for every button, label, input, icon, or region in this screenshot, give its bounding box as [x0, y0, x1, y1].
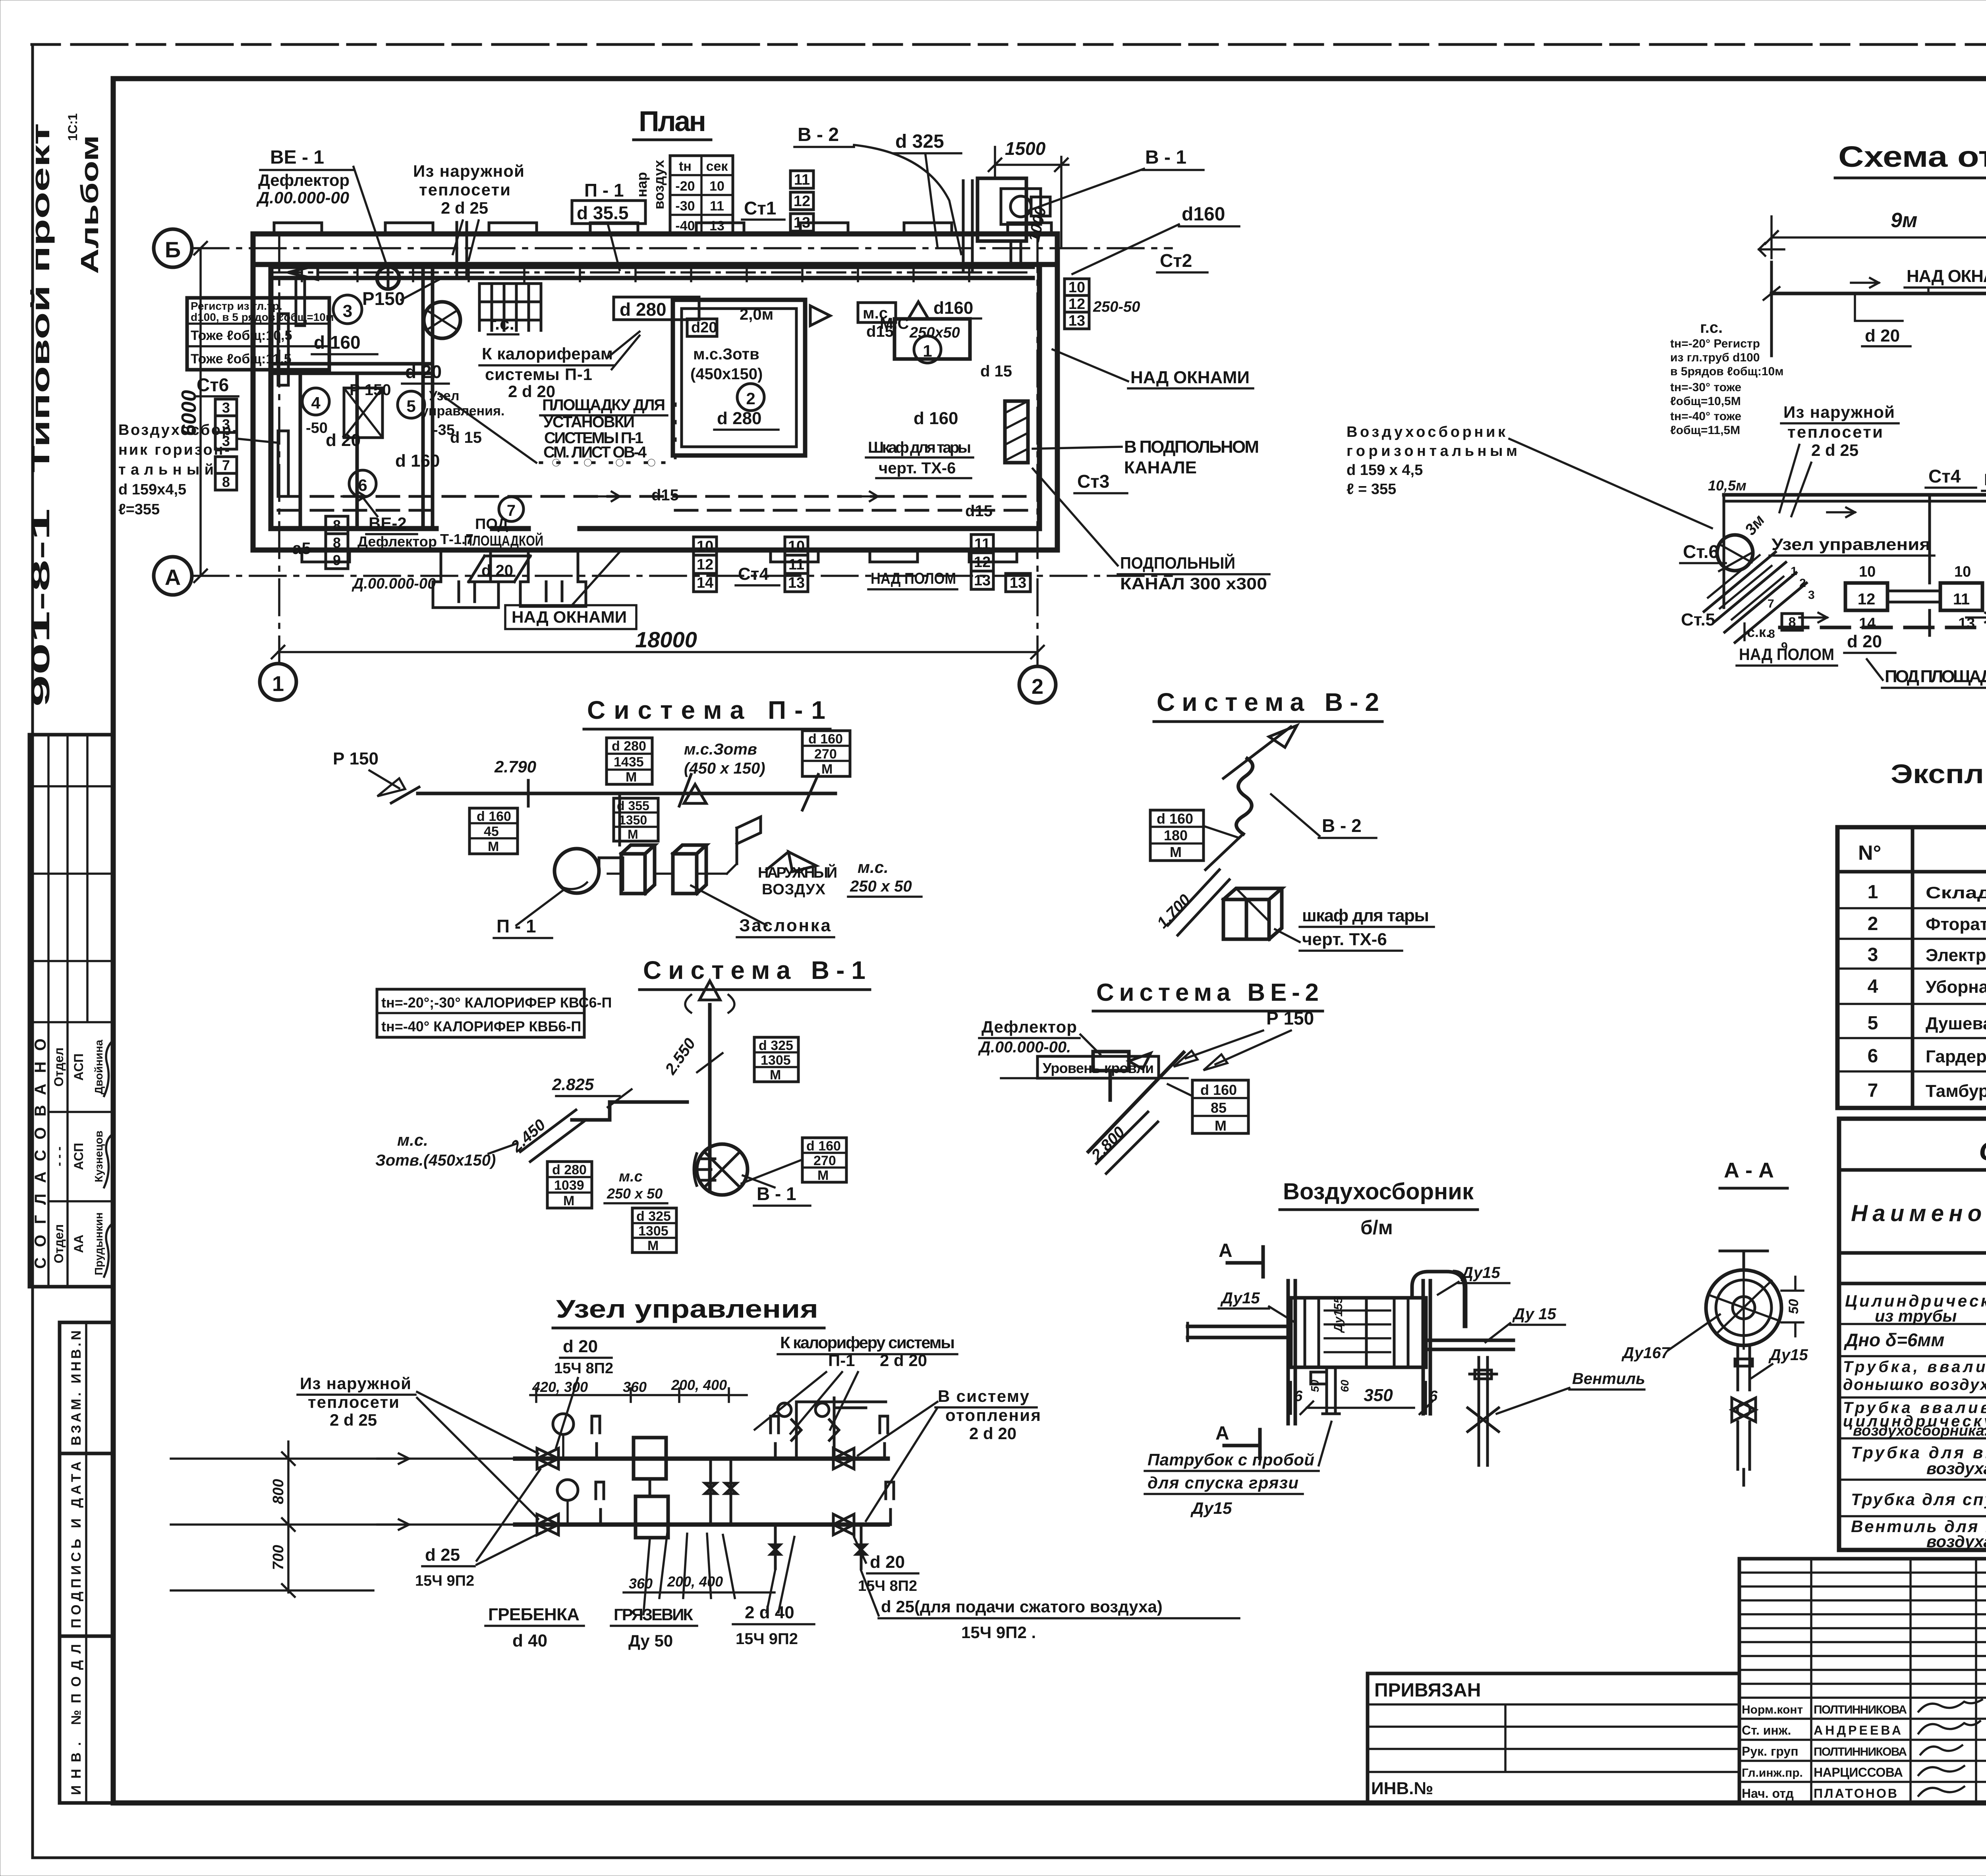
svg-text:АСП: АСП	[71, 1054, 86, 1081]
svg-text:d15: d15	[965, 502, 993, 520]
svg-text:14: 14	[1859, 615, 1876, 632]
svg-text:ГРЕБЕНКА: ГРЕБЕНКА	[488, 1605, 580, 1624]
svg-text:2.550: 2.550	[662, 1035, 699, 1078]
svg-text:901-8-1: 901-8-1	[26, 508, 55, 707]
svg-text:Из наружной: Из наружной	[1783, 403, 1895, 421]
svg-text:Ст. инж.: Ст. инж.	[1742, 1723, 1791, 1737]
hatched wall shaft	[1005, 401, 1028, 463]
svg-text:Дефлектор: Дефлектор	[258, 171, 350, 189]
svg-text:Дефлектор: Дефлектор	[357, 533, 437, 550]
svg-text:(450 х 150): (450 х 150)	[684, 760, 765, 777]
svg-text:черт. ТХ-6: черт. ТХ-6	[879, 459, 956, 477]
svg-text:Узел управления: Узел управления	[556, 1295, 818, 1323]
svg-text:2: 2	[746, 389, 755, 408]
circled 6	[349, 470, 376, 497]
svg-text:Трубка, вваливаемая в: Трубка, вваливаемая в	[1843, 1358, 1986, 1376]
svg-text:Система П-1: Система П-1	[587, 696, 825, 724]
svg-text:Тоже ℓобщ:11,5: Тоже ℓобщ:11,5	[191, 351, 292, 367]
specification table	[1839, 1119, 1986, 1551]
central room	[673, 300, 830, 455]
system V-2 diagram	[1150, 726, 1434, 951]
svg-text:d 160: d 160	[395, 451, 440, 471]
svg-text:Ст4: Ст4	[1928, 466, 1961, 486]
fan V-1 circle	[697, 1144, 748, 1195]
svg-text:3: 3	[222, 433, 230, 449]
svg-text:Отдел: Отдел	[52, 1224, 66, 1264]
svg-text:Кузнецов: Кузнецов	[93, 1131, 105, 1182]
svg-text:-50: -50	[306, 420, 328, 436]
circled 7 and pod ploschadkoy	[499, 497, 524, 521]
svg-text:d 280: d 280	[620, 299, 667, 320]
top elbow pipe	[1412, 1272, 1466, 1326]
svg-text:ПОД ПЛОЩАДКОЙ: ПОД ПЛОЩАДКОЙ	[1885, 666, 1986, 686]
zaslonka slab	[673, 845, 706, 894]
svg-text:12: 12	[1068, 296, 1085, 313]
svg-text:tн: tн	[679, 159, 692, 174]
svg-text:d160: d160	[933, 298, 973, 318]
svg-text:м.с.Зотв: м.с.Зотв	[693, 345, 759, 363]
svg-text:с.к.: с.к.	[1747, 624, 1770, 640]
svg-text:1: 1	[923, 342, 932, 360]
svg-text:d 20: d 20	[481, 562, 513, 579]
svg-text:ПОД: ПОД	[475, 516, 508, 533]
svg-text:Ду 15: Ду 15	[1512, 1305, 1556, 1323]
svg-text:10: 10	[697, 538, 713, 555]
VE-1 deflector circle on wall	[369, 267, 407, 289]
svg-text:Экспликация помещений: Экспликация помещений	[1891, 759, 1986, 789]
svg-text:-20: -20	[675, 179, 695, 194]
svg-text:Двойнина: Двойнина	[93, 1040, 105, 1094]
svg-text:ПОЛТИННИКОВА: ПОЛТИННИКОВА	[1814, 1745, 1907, 1758]
labels top duct area	[614, 297, 699, 320]
svg-text:из трубы: из трубы	[1875, 1307, 1957, 1325]
svg-text:Р 150: Р 150	[333, 749, 379, 768]
svg-text:d 40: d 40	[512, 1631, 547, 1650]
svg-text:200, 400: 200, 400	[667, 1573, 723, 1590]
P-1 intake circle	[424, 302, 460, 338]
svg-text:М: М	[488, 839, 499, 854]
svg-text:М: М	[647, 1238, 659, 1253]
bottom drain pipe	[1323, 1367, 1339, 1414]
svg-text:13: 13	[974, 572, 991, 589]
svg-text:13: 13	[788, 575, 805, 591]
svg-text:Воздухосбор-: Воздухосбор-	[118, 422, 238, 438]
stack boxes 11 12 13	[971, 535, 993, 589]
svg-text:План: План	[639, 106, 706, 137]
svg-text:Схема отопления: Схема отопления	[1838, 140, 1986, 173]
sidebar strip ИНВ № ПОДЛ	[60, 1636, 113, 1803]
svg-text:d 15: d 15	[450, 429, 482, 446]
svg-text:d 280: d 280	[717, 409, 762, 428]
d20 drop labels upper	[1855, 293, 1903, 321]
stack boxes 3 3 3	[215, 399, 237, 449]
svg-text:Спецификация: Спецификация	[1979, 1136, 1986, 1166]
svg-text:б/м: б/м	[1360, 1216, 1393, 1239]
svg-text:А - А: А - А	[1724, 1158, 1774, 1182]
axis B dash-dot line	[193, 247, 1172, 249]
svg-text:d20: d20	[691, 319, 717, 336]
left valves	[537, 1448, 558, 1469]
privyazan table	[1368, 1673, 1739, 1803]
svg-text:системы П-1: системы П-1	[485, 365, 592, 384]
svg-text:tн=-20°;-30° КАЛОРИФЕР КВС6-П: tн=-20°;-30° КАЛОРИФЕР КВС6-П	[381, 994, 612, 1011]
svg-text:Типовой проект: Типовой проект	[26, 123, 55, 473]
svg-text:270: 270	[813, 1153, 836, 1168]
valve ventil	[1468, 1357, 1499, 1465]
svg-text:6: 6	[1294, 1388, 1303, 1405]
svg-text:d15: d15	[651, 486, 679, 504]
svg-text:d 20: d 20	[326, 430, 361, 450]
svg-text:1С:1: 1С:1	[66, 113, 80, 141]
svg-text:Ст4: Ст4	[738, 564, 769, 584]
small drain valves lower	[771, 1525, 780, 1569]
svg-text:Ст6: Ст6	[197, 374, 229, 395]
svg-text:2: 2	[1799, 577, 1806, 590]
svg-text:15Ч 9П2: 15Ч 9П2	[736, 1630, 798, 1648]
svg-text:3м: 3м	[1741, 511, 1768, 538]
svg-text:Альбом: Альбом	[76, 135, 104, 274]
svg-text:13: 13	[709, 218, 724, 234]
stack boxes 10 12 13 right	[1064, 279, 1089, 329]
grebenka slanted radiators left	[1704, 552, 1806, 643]
supply air duct along top	[274, 264, 1033, 281]
svg-text:Из наружной: Из наружной	[413, 162, 524, 180]
manometers	[553, 1414, 574, 1434]
svg-text:11: 11	[710, 199, 724, 214]
svg-text:7: 7	[1768, 597, 1774, 610]
svg-text:ПРИВЯЗАН: ПРИВЯЗАН	[1374, 1680, 1481, 1701]
svg-text:Ду155: Ду155	[1332, 1296, 1345, 1333]
svg-text:4: 4	[1868, 976, 1878, 997]
svg-text:420, 300: 420, 300	[532, 1379, 588, 1395]
window marks top	[274, 223, 1051, 234]
svg-text:d 25: d 25	[425, 1545, 460, 1565]
svg-text:А: А	[165, 565, 181, 590]
svg-text:d 325: d 325	[895, 131, 944, 152]
svg-text:2 d 40: 2 d 40	[745, 1603, 794, 1622]
svg-text:м.с.Зотв: м.с.Зотв	[684, 741, 757, 758]
svg-text:В - 2: В - 2	[798, 124, 839, 145]
svg-text:tн=-30° тоже: tн=-30° тоже	[1670, 381, 1741, 394]
entrance porch right	[520, 550, 586, 606]
svg-text:d 35.5: d 35.5	[577, 203, 628, 223]
svg-text:tн=-20° Регистр: tн=-20° Регистр	[1670, 337, 1760, 350]
fan P-1	[554, 849, 599, 893]
svg-text:6: 6	[1429, 1388, 1438, 1405]
svg-text:НАД ПОЛОМ: НАД ПОЛОМ	[871, 570, 956, 587]
svg-text:шкаф для тары: шкаф для тары	[1302, 906, 1429, 925]
svg-text:45: 45	[484, 824, 499, 839]
shkaf 3d box	[1223, 888, 1282, 939]
middle pipe nad oknami row	[1724, 493, 1986, 497]
pipe down	[1738, 1345, 1750, 1390]
svg-text:М: М	[770, 1067, 781, 1083]
thermometers	[592, 1416, 604, 1525]
internal partitions left rooms	[271, 264, 433, 529]
svg-text:Система В-1: Система В-1	[643, 956, 865, 984]
axis 1 line and circle	[278, 236, 280, 664]
svg-text:d 20: d 20	[1847, 632, 1882, 651]
svg-text:Электрощитовая: Электрощитовая	[1926, 946, 1986, 965]
return pipe lower	[515, 1523, 888, 1527]
svg-text:d 325: d 325	[636, 1209, 671, 1224]
svg-text:воздуха: воздуха	[1926, 1532, 1986, 1551]
dim 1500	[989, 147, 1068, 246]
svg-text:УСТАНОВКИ: УСТАНОВКИ	[543, 413, 635, 431]
svg-text:Ст.6: Ст.6	[1683, 541, 1719, 562]
branch pipes up to kalorifer	[796, 1398, 886, 1459]
dimension 6000	[194, 242, 207, 582]
svg-text:АНДРЕЕВА: АНДРЕЕВА	[1814, 1723, 1901, 1737]
vozduhosbornik drawing	[1145, 1240, 1645, 1517]
svg-text:360: 360	[629, 1575, 653, 1592]
svg-text:10: 10	[1954, 564, 1971, 580]
svg-text:11: 11	[788, 556, 804, 573]
svg-text:Из наружной: Из наружной	[300, 1374, 411, 1393]
svg-text:2: 2	[1868, 913, 1878, 934]
svg-text:НАД ОКНАМИ: НАД ОКНАМИ	[1907, 266, 1986, 286]
svg-text:НАД ОКНАМИ: НАД ОКНАМИ	[1130, 368, 1250, 387]
svg-text:теплосети: теплосети	[1787, 423, 1883, 441]
svg-text:Р150: Р150	[362, 288, 405, 309]
svg-text:6: 6	[1868, 1046, 1878, 1067]
svg-text:НАРУЖНЫЙ: НАРУЖНЫЙ	[758, 863, 837, 881]
svg-text:воздухосборника.: воздухосборника.	[1853, 1422, 1986, 1439]
svg-text:ИНВ. №ПОДЛ: ИНВ. №ПОДЛ	[69, 1644, 84, 1795]
svg-text:85: 85	[1211, 1100, 1227, 1116]
sidebar strip ПОДПИСЬ И ДАТА	[60, 1453, 113, 1636]
svg-text:Д.00.000-00: Д.00.000-00	[256, 188, 349, 207]
svg-text:М: М	[626, 770, 637, 785]
svg-text:15Ч 8П2: 15Ч 8П2	[554, 1360, 613, 1377]
svg-text:d 15: d 15	[980, 363, 1012, 380]
dashed floor channel pipes	[278, 495, 1033, 498]
svg-text:d 20: d 20	[563, 1337, 598, 1356]
svg-text:Узел управления: Узел управления	[1772, 535, 1930, 554]
svg-text:отопления: отопления	[945, 1406, 1041, 1424]
svg-text:350: 350	[1364, 1386, 1393, 1405]
valve	[1732, 1398, 1756, 1422]
svg-text:КАНАЛЕ: КАНАЛЕ	[1124, 458, 1197, 477]
outer sheet border top (dashed)	[32, 43, 1986, 46]
svg-text:К калориферам: К калориферам	[482, 344, 613, 363]
tn sek table	[670, 156, 733, 234]
svg-text:черт. ТХ-6: черт. ТХ-6	[1302, 930, 1387, 949]
svg-text:ПОДПИСЬ И ДАТА: ПОДПИСЬ И ДАТА	[69, 1461, 84, 1628]
svg-text:Д.00.000-00: Д.00.000-00	[352, 575, 436, 592]
svg-text:Дно δ=6мм: Дно δ=6мм	[1843, 1330, 1944, 1350]
svg-text:НАРЦИССОВА: НАРЦИССОВА	[1814, 1765, 1903, 1779]
signature table rows	[1739, 1559, 1986, 1803]
svg-text:ℓобщ=11,5М: ℓобщ=11,5М	[1670, 424, 1740, 437]
svg-text:10,5м: 10,5м	[1708, 477, 1746, 494]
svg-text:8: 8	[222, 474, 230, 490]
gryazevik boxes	[634, 1438, 666, 1479]
vertical pipe pair from teploset	[457, 222, 467, 278]
heater grid K kaloriferam	[479, 284, 541, 330]
svg-text:Отдел: Отдел	[52, 1048, 66, 1087]
svg-text:Трубка для спуска грязи: Трубка для спуска грязи	[1851, 1490, 1986, 1509]
svg-text:d 20: d 20	[1865, 326, 1900, 345]
svg-text:А: А	[1215, 1423, 1229, 1444]
svg-text:1435: 1435	[614, 755, 644, 770]
svg-text:ГРЯЗЕВИК: ГРЯЗЕВИК	[614, 1605, 693, 1624]
svg-text:N°: N°	[1858, 841, 1881, 865]
axis 2 line and circle	[1036, 236, 1039, 666]
svg-text:d 160: d 160	[1157, 811, 1193, 827]
naruzhny vozduh arrow	[767, 852, 816, 872]
svg-text:Т-1.7: Т-1.7	[440, 531, 473, 547]
svg-text:8: 8	[333, 535, 341, 551]
svg-text:горизонтальным: горизонтальным	[1347, 443, 1517, 459]
svg-text:700: 700	[270, 1545, 287, 1570]
svg-text:Тамбур: Тамбур	[1926, 1081, 1986, 1101]
svg-text:d100, в 5 рядов ℓобщ=10м: d100, в 5 рядов ℓобщ=10м	[191, 311, 334, 323]
svg-text:10: 10	[1068, 279, 1085, 296]
svg-text:9м: 9м	[1891, 209, 1917, 232]
dimension 18000	[272, 646, 1044, 658]
svg-text:d 160: d 160	[914, 409, 958, 428]
svg-text:d 20: d 20	[870, 1552, 905, 1572]
platform dotted outline	[540, 401, 675, 463]
svg-text:1305: 1305	[761, 1053, 791, 1068]
svg-text:Тоже ℓобщ:10,5: Тоже ℓобщ:10,5	[191, 328, 292, 343]
svg-text:сек: сек	[706, 159, 728, 174]
svg-text:Воздухосборник: Воздухосборник	[1283, 1179, 1474, 1204]
svg-text:Душевая: Душевая	[1926, 1014, 1986, 1033]
stack boxes 10 12 14	[694, 537, 717, 592]
svg-text:Р 150: Р 150	[350, 381, 391, 399]
section A-A drawing	[1621, 1251, 1808, 1485]
svg-text:П - 1: П - 1	[584, 180, 624, 201]
shkaf dlya tary room	[866, 319, 973, 478]
svg-text:3: 3	[1868, 944, 1878, 965]
svg-text:12: 12	[974, 554, 991, 571]
circled 5	[398, 391, 425, 418]
svg-text:7: 7	[1868, 1080, 1878, 1101]
svg-text:ℓ=355: ℓ=355	[118, 501, 160, 518]
svg-text:1: 1	[272, 672, 284, 696]
svg-text:Уборная: Уборная	[1926, 977, 1986, 997]
svg-text:250-50: 250-50	[1093, 299, 1140, 315]
svg-text:2 d 25: 2 d 25	[441, 199, 488, 217]
svg-text:ПЛОЩАДКУ ДЛЯ: ПЛОЩАДКУ ДЛЯ	[542, 396, 665, 414]
svg-text:14: 14	[697, 575, 713, 591]
svg-text:4: 4	[311, 394, 321, 412]
uzel upravleniya diagram	[171, 1333, 1239, 1650]
svg-text:1305: 1305	[638, 1224, 668, 1239]
svg-text:ВЕ-2: ВЕ-2	[369, 514, 407, 533]
svg-text:Наименование: Наименование	[1851, 1200, 1986, 1226]
svg-text:2 d 20: 2 d 20	[969, 1424, 1016, 1443]
svg-text:Ду15: Ду15	[1461, 1264, 1500, 1282]
svg-text:5: 5	[1868, 1013, 1878, 1034]
svg-text:Воздухосборник: Воздухосборник	[1347, 424, 1506, 440]
svg-text:360: 360	[623, 1379, 647, 1395]
circled 4	[302, 388, 329, 415]
svg-text:2,0м: 2,0м	[740, 306, 773, 323]
svg-text:180: 180	[1164, 827, 1188, 843]
svg-text:2 d 25: 2 d 25	[1811, 441, 1858, 459]
lower radiators pair	[1845, 556, 1982, 635]
svg-text:М: М	[817, 1168, 829, 1183]
svg-text:d 280: d 280	[612, 739, 646, 754]
axis B circle	[154, 229, 192, 267]
svg-text:М: М	[1215, 1117, 1227, 1134]
svg-text:tн=-40° тоже: tн=-40° тоже	[1670, 410, 1741, 423]
equipment slim rects	[278, 314, 288, 385]
svg-text:м.с.: м.с.	[858, 858, 889, 876]
svg-text:Патрубок с пробой: Патрубок с пробой	[1148, 1450, 1314, 1469]
svg-text:60: 60	[1339, 1380, 1351, 1392]
system VE-2 diagram	[978, 1008, 1314, 1173]
svg-text:ВЗАМ. ИНВ.N: ВЗАМ. ИНВ.N	[69, 1330, 84, 1446]
svg-text:Прудынкин: Прудынкин	[93, 1212, 105, 1275]
svg-text:ВОЗДУХ: ВОЗДУХ	[762, 881, 826, 898]
svg-text:d 280: d 280	[552, 1162, 587, 1177]
left inlet pipe	[1188, 1326, 1291, 1338]
svg-text:-30: -30	[675, 199, 695, 214]
svg-text:d 159х4,5: d 159х4,5	[118, 481, 186, 498]
svg-text:а5: а5	[292, 539, 311, 558]
svg-text:Ст1: Ст1	[744, 198, 776, 218]
svg-text:d 325: d 325	[759, 1038, 793, 1053]
right outlet pipe	[1426, 1340, 1513, 1349]
svg-text:Ст.5: Ст.5	[1681, 610, 1715, 629]
svg-text:г.с.: г.с.	[1700, 319, 1723, 336]
svg-text:Дефлектор: Дефлектор	[981, 1017, 1077, 1036]
svg-text:СМ. ЛИСТ ОВ-4: СМ. ЛИСТ ОВ-4	[543, 444, 647, 461]
left registr box	[187, 298, 334, 370]
svg-text:d 160: d 160	[477, 809, 511, 824]
svg-text:НАД ПОЛОМ: НАД ПОЛОМ	[1739, 645, 1834, 664]
svg-text:50: 50	[1309, 1380, 1321, 1392]
svg-text:13: 13	[1010, 575, 1026, 591]
svg-text:Нач. отд: Нач. отд	[1742, 1786, 1794, 1801]
svg-text:АА: АА	[71, 1235, 86, 1253]
svg-text:ПЛОЩАДКОЙ: ПЛОЩАДКОЙ	[464, 532, 543, 549]
svg-text:АСП: АСП	[71, 1143, 86, 1170]
room legend table	[1837, 827, 1986, 1108]
uzel upravleniya circle	[1717, 535, 1753, 571]
svg-text:НАД ОКНАМИ: НАД ОКНАМИ	[1984, 470, 1986, 489]
svg-text:В систему: В систему	[938, 1387, 1030, 1405]
svg-text:10: 10	[788, 538, 805, 555]
svg-text:50: 50	[1786, 1299, 1801, 1314]
svg-text:М: М	[1170, 844, 1182, 860]
svg-text:Ду 50: Ду 50	[628, 1631, 673, 1650]
svg-text:250 х 50: 250 х 50	[607, 1185, 663, 1202]
svg-text:13: 13	[794, 214, 810, 231]
svg-text:Ст2: Ст2	[1160, 250, 1192, 271]
svg-text:13: 13	[1068, 313, 1085, 329]
svg-text:8: 8	[333, 517, 341, 533]
svg-text:Система ВЕ-2: Система ВЕ-2	[1096, 979, 1319, 1006]
svg-text:тальный: тальный	[118, 461, 214, 478]
svg-text:КАНАЛ 300 х300: КАНАЛ 300 х300	[1120, 574, 1267, 593]
bypass vertical pipes with valves	[711, 1459, 731, 1525]
svg-text:Шкаф для тары: Шкаф для тары	[868, 439, 971, 456]
svg-text:2: 2	[1032, 675, 1043, 699]
approval stamp table СОГЛАСОВАНО	[29, 735, 113, 1287]
left gs riser	[1770, 262, 1773, 356]
svg-text:250х50: 250х50	[909, 324, 960, 341]
svg-text:СОГЛАСОВАНО: СОГЛАСОВАНО	[32, 1038, 49, 1269]
svg-text:воздуха: воздуха	[1926, 1459, 1986, 1478]
svg-text:Р 150: Р 150	[1266, 1008, 1314, 1029]
axis A dash-dot line	[193, 575, 1172, 577]
svg-text:В - 1: В - 1	[757, 1183, 796, 1204]
